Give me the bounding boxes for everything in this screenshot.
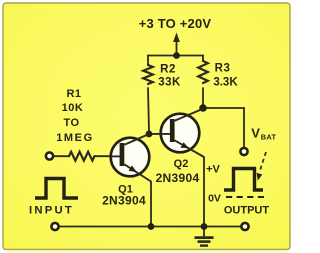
svg-text:BAT: BAT <box>261 133 277 142</box>
svg-text:3.3K: 3.3K <box>213 77 238 89</box>
svg-text:1MEG: 1MEG <box>56 132 94 144</box>
svg-text:10K: 10K <box>62 102 84 114</box>
svg-text:2N3904: 2N3904 <box>156 171 200 185</box>
svg-text:+3 TO +20V: +3 TO +20V <box>139 16 212 31</box>
svg-text:+V: +V <box>206 164 220 176</box>
svg-text:INPUT: INPUT <box>29 205 74 217</box>
svg-text:2N3904: 2N3904 <box>102 193 146 207</box>
svg-text:R2: R2 <box>160 64 176 76</box>
svg-text:OUTPUT: OUTPUT <box>224 205 270 217</box>
svg-text:R1: R1 <box>66 88 81 100</box>
svg-text:33K: 33K <box>158 77 181 89</box>
svg-text:R3: R3 <box>215 63 231 75</box>
svg-text:V: V <box>251 126 260 141</box>
svg-text:Q2: Q2 <box>174 158 189 170</box>
svg-text:0V: 0V <box>208 193 221 205</box>
svg-text:TO: TO <box>63 117 79 129</box>
